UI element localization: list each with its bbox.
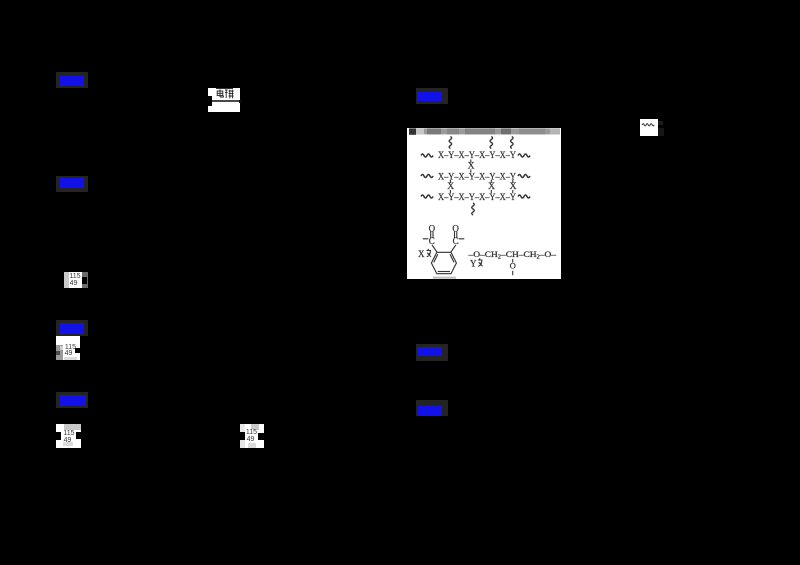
polymer structure scanned image (white box with network diagram) bbox=[407, 128, 561, 279]
svg-text:O: O bbox=[452, 223, 459, 233]
electrolysis left black notch bbox=[206, 96, 213, 106]
row 2 right horizontal squiggle bbox=[518, 175, 530, 178]
fraction image C bottom light gray patch bbox=[63, 442, 73, 447]
fraction image B bottom light gray bbox=[64, 357, 77, 361]
fraction image D left black notch bbox=[240, 432, 245, 440]
answer-link highlight 2 blue box bbox=[60, 178, 85, 189]
bond C1 to ring bbox=[432, 245, 437, 252]
svg-text:C: C bbox=[428, 236, 434, 246]
fraction image B numerator 115 bbox=[64, 344, 78, 351]
row 2 left horizontal squiggle bbox=[421, 175, 433, 178]
crosslink X between rows 1-2 under Y2 bbox=[469, 160, 471, 163]
fraction image C top-right light gray patch bbox=[64, 424, 81, 430]
answer-link highlight 3 blue box bbox=[60, 323, 84, 334]
fraction image C denominator 49 bbox=[61, 437, 74, 444]
fraction image C left black notch bbox=[56, 432, 62, 440]
row 1 right horizontal squiggle bbox=[518, 154, 530, 157]
squiggly-bond inline image white box bbox=[640, 119, 659, 136]
fraction image A denominator 49 bbox=[68, 280, 79, 287]
answer-link highlight 6 blue box bbox=[418, 347, 443, 357]
electrolysis arrow shaft bbox=[212, 100, 240, 102]
bond CH down to O bbox=[511, 259, 513, 263]
electrolysis label text 电解 (drawn strokes) bbox=[216, 89, 234, 100]
fraction image D denominator 49 bbox=[245, 436, 257, 443]
svg-text:X–Y–X–Y–X–Y–X–Y: X–Y–X–Y–X–Y–X–Y bbox=[438, 172, 516, 182]
electrolysis condition image (电解 over arrow) white box bbox=[208, 88, 241, 113]
fraction image D bottom middle light gray patch bbox=[248, 443, 257, 448]
fraction image B denominator 49 bbox=[63, 350, 75, 357]
row 1 left horizontal squiggle bbox=[421, 154, 433, 157]
fraction image D right black notch bbox=[258, 433, 264, 441]
image white background bbox=[407, 128, 561, 279]
answer-link highlight 6 surround bbox=[416, 344, 449, 361]
gray smudge below ring bbox=[433, 277, 456, 279]
row 3 right horizontal squiggle bbox=[518, 195, 530, 198]
fraction image B right black notch bbox=[75, 348, 80, 353]
bond C2 to ring bbox=[450, 245, 455, 252]
svg-text:Y: Y bbox=[470, 259, 477, 269]
C=O double bond 2 bbox=[453, 231, 455, 238]
svg-text:–O–CH2–CH–CH2–O–: –O–CH2–CH–CH2–O– bbox=[467, 249, 556, 261]
svg-text:X–Y–X–Y–X–Y–X–Y: X–Y–X–Y–X–Y–X–Y bbox=[438, 193, 516, 203]
carbonyl C atom 1 with left dash bbox=[422, 238, 428, 240]
fraction image B checker dark cell bbox=[56, 351, 60, 355]
benzene ring outline bbox=[431, 252, 456, 273]
answer-link highlight 7 blue box bbox=[418, 406, 443, 417]
electrolysis top smudge bbox=[216, 88, 233, 90]
answer-link highlight 2 surround bbox=[56, 176, 88, 192]
fraction image A (115/49) light left strip bbox=[64, 272, 70, 288]
svg-text:X–Y–X–Y–X–Y–X–Y: X–Y–X–Y–X–Y–X–Y bbox=[438, 151, 516, 161]
fraction image D white body bbox=[240, 424, 264, 449]
benzene inner double bond bottom bbox=[437, 271, 449, 273]
fraction image C white body bbox=[56, 424, 81, 448]
crosslink X between rows 2-3 under Y4 bbox=[511, 180, 513, 183]
answer-link highlight 4 surround bbox=[56, 392, 88, 408]
fraction image B checkered gray left column bbox=[56, 345, 64, 361]
fraction image A gray right part bbox=[82, 272, 89, 288]
fraction image A numerator 115 bbox=[69, 273, 81, 280]
fraction image C right black notch bbox=[76, 432, 81, 440]
crosslink X between rows 2-3 under Y3 bbox=[490, 180, 492, 183]
row 3 left horizontal squiggle bbox=[421, 195, 433, 198]
svg-text:O: O bbox=[428, 223, 435, 233]
answer-link highlight 1 blue box bbox=[60, 76, 84, 87]
bond below pendant O bbox=[511, 271, 513, 275]
answer-link highlight 1 (left column) surround bbox=[56, 72, 88, 88]
electrolysis arrow tip dot bbox=[239, 100, 241, 103]
svg-text:C: C bbox=[452, 236, 458, 246]
top squiggle above Y3 bbox=[490, 137, 493, 149]
fraction image D numerator 115 bbox=[245, 429, 258, 436]
top squiggle above Y4 bbox=[510, 137, 513, 149]
fraction image C numerator 115 bbox=[62, 430, 76, 437]
fraction image A white body bbox=[69, 272, 82, 288]
fraction image D top middle light gray patch bbox=[251, 424, 260, 431]
benzene inner double bond left bbox=[433, 254, 437, 262]
fraction image D left light strip bbox=[240, 424, 245, 449]
squiggly-bond faint right marks bbox=[658, 121, 663, 125]
squiggly-bond wavy line bbox=[640, 119, 659, 136]
answer-link highlight 4 blue box bbox=[60, 395, 86, 406]
C=O double bond 1 bbox=[429, 231, 431, 238]
bottom squiggle below row 3 bbox=[471, 203, 474, 215]
answer-link highlight 3 surround bbox=[56, 320, 88, 336]
svg-text:O: O bbox=[509, 261, 515, 271]
benzene inner double bond right bbox=[450, 254, 454, 262]
fraction image B checker light cell bbox=[60, 346, 64, 350]
answer-link highlight 5 blue box bbox=[417, 92, 442, 102]
fraction image A black blob bbox=[82, 277, 88, 285]
answer-link highlight 5 (right column) surround bbox=[416, 88, 449, 104]
svg-text:X: X bbox=[418, 249, 425, 259]
cropped text band at top of scan bbox=[409, 128, 560, 134]
crosslink X between rows 2-3 under Y1 bbox=[449, 180, 451, 183]
answer-link highlight 7 surround bbox=[416, 400, 449, 416]
top squiggle above Y1 bbox=[449, 137, 452, 149]
fraction image B white body bbox=[56, 336, 81, 361]
